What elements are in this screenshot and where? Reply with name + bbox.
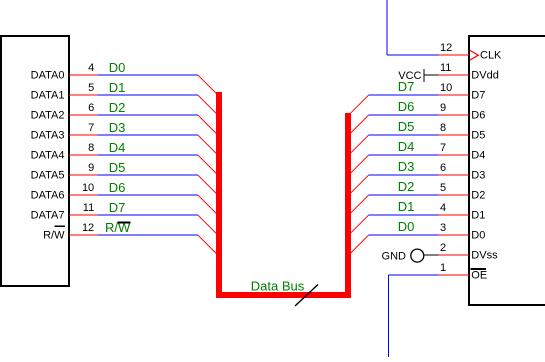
bus exit wire (red diagonal) right pin 10 (348, 95, 369, 116)
svg-text:D4: D4 (398, 139, 415, 154)
bus exit wire (red diagonal) right pin 5 (348, 195, 369, 216)
svg-text:D3: D3 (471, 170, 485, 182)
svg-text:7: 7 (88, 122, 94, 134)
svg-text:2: 2 (440, 242, 446, 254)
wire (blue) from U1 pin 5 (98, 94, 199, 96)
svg-text:10: 10 (440, 82, 452, 94)
svg-text:5: 5 (440, 182, 446, 194)
svg-text:D2: D2 (398, 179, 415, 194)
svg-text:DATA3: DATA3 (31, 130, 65, 142)
GND symbol (open circle) (411, 249, 424, 262)
svg-text:GND: GND (382, 251, 407, 263)
wire (blue) from U1 pin 11 (98, 214, 199, 216)
svg-text:6: 6 (88, 102, 94, 114)
clock input triangle at CLK pin (470, 50, 478, 60)
pin stub wire (red) U2 pin 10 (439, 94, 469, 96)
bus width slash mark (295, 285, 318, 307)
pin stub wire (red) U2 pin 9 (439, 114, 469, 116)
svg-text:7: 7 (440, 142, 446, 154)
pin stub wire (red) U1 pin 9 (69, 174, 98, 176)
overline over OE (471, 268, 486, 270)
svg-text:6: 6 (440, 162, 446, 174)
svg-text:D2: D2 (109, 100, 126, 115)
svg-text:12: 12 (82, 222, 94, 234)
svg-text:DATA2: DATA2 (31, 110, 65, 122)
wire (blue) vertical from OE to bottom edge (388, 275, 390, 357)
pin stub wire (red) U2 pin 4 (439, 214, 469, 216)
svg-text:D1: D1 (398, 199, 415, 214)
svg-text:R/W: R/W (43, 230, 65, 242)
data bus (thick red U-shape) (219, 92, 348, 295)
svg-text:8: 8 (88, 142, 94, 154)
pin stub wire (red) U1 pin 5 (69, 94, 98, 96)
svg-text:D1: D1 (471, 210, 485, 222)
svg-text:11: 11 (83, 202, 94, 214)
svg-text:D4: D4 (109, 140, 126, 155)
wire (blue) into U2 pin 10 (369, 94, 439, 96)
svg-text:D7: D7 (109, 200, 126, 215)
svg-text:D6: D6 (109, 180, 126, 195)
svg-text:DATA6: DATA6 (31, 190, 65, 202)
bus entry wire (red diagonal) left pin 6 (198, 115, 219, 136)
bus exit wire (red diagonal) right pin 6 (348, 175, 369, 196)
pin stub wire (red) U1 pin 11 (69, 214, 98, 216)
pin stub wire (red) U2 pin 6 (439, 174, 469, 176)
bus entry wire (red diagonal) left pin 8 (198, 155, 219, 176)
wire (black) from VCC bar to pin (424, 74, 439, 76)
bus exit wire (red diagonal) right pin 7 (348, 155, 369, 176)
pin stub wire (red) U2 pin 5 (439, 194, 469, 196)
pin stub wire (red) U2 pin 3 (439, 234, 469, 236)
bus entry wire (red diagonal) left pin 9 (198, 175, 219, 196)
svg-text:Data Bus: Data Bus (251, 279, 305, 294)
svg-text:D6: D6 (398, 99, 415, 114)
pin stub wire (red) U2 pin 1 (439, 274, 469, 276)
svg-text:DATA4: DATA4 (31, 150, 65, 162)
pin stub wire (red) U1 pin 10 (69, 194, 98, 196)
pin stub wire (red) U2 pin 11 (439, 74, 469, 76)
svg-text:DATA5: DATA5 (31, 170, 65, 182)
wire (blue) horizontal into OE pin (389, 274, 439, 276)
pin stub wire (red) U1 pin 7 (69, 134, 98, 136)
pin stub wire (red) U1 pin 6 (69, 114, 98, 116)
svg-text:DATA1: DATA1 (31, 90, 65, 102)
svg-text:D0: D0 (109, 60, 126, 75)
wire (blue) from U1 pin 10 (98, 194, 199, 196)
svg-text:CLK: CLK (480, 50, 502, 62)
bus exit wire (red diagonal) right pin 8 (348, 135, 369, 156)
wire (blue) into U2 pin 6 (369, 174, 439, 176)
bus entry wire (red diagonal) left pin 11 (198, 215, 219, 236)
bus entry wire (red diagonal) left pin 10 (198, 195, 219, 216)
wire (black) from GND circle to pin (424, 254, 439, 256)
IC U2 (right device) (469, 36, 545, 305)
pin stub wire (red) U2 pin 8 (439, 134, 469, 136)
svg-text:3: 3 (440, 222, 446, 234)
bus exit wire (red diagonal) right pin 4 (348, 215, 369, 236)
svg-text:DVdd: DVdd (471, 70, 499, 82)
wire (blue) into U2 pin 5 (369, 194, 439, 196)
VCC power symbol (T-bar) (423, 69, 425, 82)
wire (blue) into U2 pin 9 (369, 114, 439, 116)
bus entry wire (red diagonal) left pin 4 (198, 75, 219, 96)
wire (blue) into U2 pin 7 (369, 154, 439, 156)
svg-text:D7: D7 (471, 90, 485, 102)
svg-text:8: 8 (440, 122, 446, 134)
pin stub wire (red) U1 pin 4 (69, 74, 98, 76)
overline over W of green R/W (118, 222, 131, 224)
wire (blue) into U2 pin 4 (369, 214, 439, 216)
svg-text:1: 1 (440, 262, 446, 274)
svg-text:D5: D5 (398, 119, 415, 134)
svg-text:OE: OE (471, 270, 487, 282)
wire (blue) from U1 pin 12 (98, 234, 199, 236)
pin stub wire (red) U2 pin 12 (439, 54, 469, 56)
svg-text:D3: D3 (398, 159, 415, 174)
bus entry wire (red diagonal) left pin 7 (198, 135, 219, 156)
svg-text:4: 4 (88, 62, 94, 74)
svg-text:5: 5 (88, 82, 94, 94)
wire (blue) into U2 pin 3 (369, 234, 439, 236)
bus entry wire (red diagonal) left pin 12 (198, 235, 219, 256)
svg-text:D5: D5 (109, 160, 126, 175)
svg-text:D4: D4 (471, 150, 485, 162)
svg-text:D2: D2 (471, 190, 485, 202)
wire (blue) vertical from top to CLK (386, 0, 388, 55)
bus exit wire (red diagonal) right pin 9 (348, 115, 369, 136)
svg-text:D1: D1 (109, 80, 126, 95)
pin stub wire (red) U1 pin 8 (69, 154, 98, 156)
svg-text:D7: D7 (398, 79, 415, 94)
svg-text:D0: D0 (398, 219, 415, 234)
pin stub wire (red) U1 pin 12 (69, 234, 98, 236)
svg-text:4: 4 (440, 202, 446, 214)
bus exit wire (red diagonal) right pin 3 (348, 235, 369, 256)
svg-text:DATA0: DATA0 (31, 70, 65, 82)
wire (blue) from U1 pin 6 (98, 114, 199, 116)
svg-text:D3: D3 (109, 120, 126, 135)
svg-text:9: 9 (440, 102, 446, 114)
svg-text:12: 12 (440, 42, 452, 54)
wire (blue) horizontal into CLK pin (387, 54, 439, 56)
wire (blue) from U1 pin 7 (98, 134, 199, 136)
overline over W of R/W (55, 225, 66, 227)
wire (blue) from U1 pin 8 (98, 154, 199, 156)
wire (blue) from U1 pin 9 (98, 174, 199, 176)
svg-text:DATA7: DATA7 (31, 210, 65, 222)
svg-text:10: 10 (82, 182, 94, 194)
svg-text:DVss: DVss (471, 250, 498, 262)
wire (blue) into U2 pin 8 (369, 134, 439, 136)
pin stub wire (red) U2 pin 2 (439, 254, 469, 256)
svg-text:D0: D0 (471, 230, 485, 242)
bus entry wire (red diagonal) left pin 5 (198, 95, 219, 116)
svg-text:D5: D5 (471, 130, 485, 142)
wire (blue) from U1 pin 4 (98, 74, 199, 76)
svg-text:D6: D6 (471, 110, 485, 122)
pin stub wire (red) U2 pin 7 (439, 154, 469, 156)
IC U1 (left device, DATA port) (1, 36, 69, 286)
svg-text:9: 9 (88, 162, 94, 174)
svg-text:11: 11 (440, 62, 451, 74)
